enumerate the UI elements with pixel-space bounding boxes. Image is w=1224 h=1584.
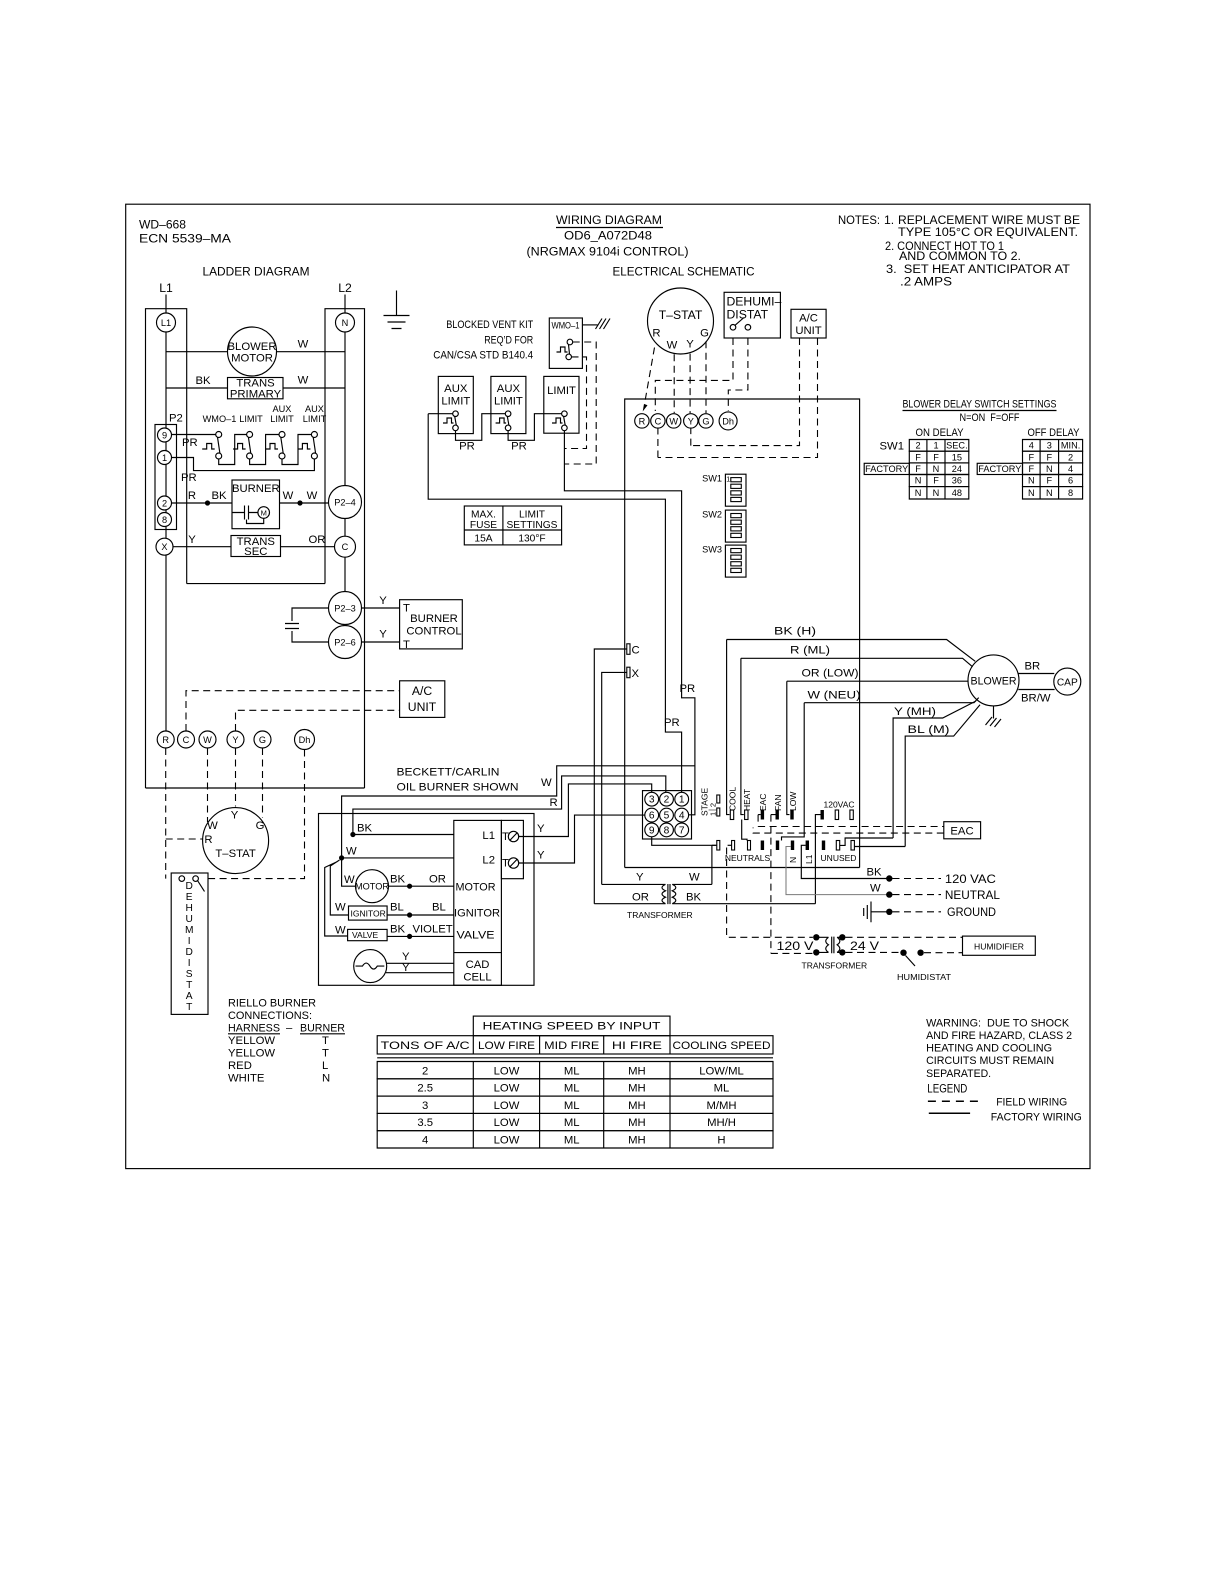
- svg-text:2: 2: [664, 795, 670, 806]
- pin X on board edge: [627, 667, 630, 678]
- wire L2 stem: [344, 295, 346, 314]
- connector circle 8: [158, 513, 172, 527]
- junction dot ignitor row: [407, 912, 412, 917]
- box AUX LIMIT at 491: [491, 376, 526, 433]
- svg-text:120 V: 120 V: [777, 939, 815, 953]
- wire chain jog 3: [282, 435, 311, 465]
- humidifier transformer dots: [813, 934, 819, 940]
- dashed T-STAT W: [673, 354, 675, 413]
- svg-text:AND FIRE HAZARD, CLASS 2: AND FIRE HAZARD, CLASS 2: [926, 1030, 1072, 1042]
- svg-text:A/C: A/C: [799, 313, 818, 325]
- OFF delay table: [1023, 440, 1083, 452]
- svg-text:SW3: SW3: [702, 545, 722, 555]
- junction dot NEUTRAL: [886, 891, 892, 897]
- svg-text:AND COMMON TO 2.: AND COMMON TO 2.: [899, 249, 1021, 263]
- wire BK to 120 VAC: [815, 878, 889, 880]
- svg-text:1: 1: [162, 453, 167, 463]
- svg-text:MH: MH: [628, 1100, 646, 1112]
- NEUTRALS pip a: [732, 841, 735, 851]
- N terminal pip: [791, 841, 794, 851]
- terminal G circle (ladder): [254, 731, 271, 748]
- svg-text:W: W: [346, 846, 357, 858]
- switch 1 in ladder chain: [202, 444, 215, 450]
- dashed wire G to T-STAT: [262, 748, 264, 818]
- svg-text:FACTORY WIRING: FACTORY WIRING: [991, 1111, 1082, 1123]
- svg-text:PR: PR: [459, 441, 475, 453]
- terminal W circle (ladder): [199, 731, 216, 748]
- svg-text:R: R: [188, 490, 196, 502]
- svg-text:BK: BK: [390, 924, 406, 936]
- pin 1: [675, 792, 689, 806]
- svg-text:HEATING SPEED BY INPUT: HEATING SPEED BY INPUT: [483, 1021, 661, 1033]
- svg-text:MH: MH: [628, 1135, 646, 1147]
- svg-text:P2: P2: [169, 413, 183, 425]
- svg-text:RED: RED: [228, 1060, 252, 1072]
- dashed wire R down: [165, 748, 167, 879]
- svg-text:N: N: [342, 318, 349, 328]
- svg-text:4: 4: [1029, 441, 1034, 451]
- svg-text:W: W: [207, 820, 218, 832]
- svg-text:YELLOW: YELLOW: [228, 1048, 275, 1060]
- svg-text:P2–6: P2–6: [334, 638, 355, 648]
- svg-text:W: W: [669, 416, 678, 426]
- junction dot motor row: [407, 884, 412, 889]
- svg-text:OIL BURNER SHOWN: OIL BURNER SHOWN: [397, 782, 519, 794]
- dashed T-STAT Y: [689, 354, 691, 413]
- svg-text:MIN.: MIN.: [1061, 441, 1080, 451]
- svg-text:BK: BK: [686, 892, 702, 904]
- terminal W circle (board): [667, 414, 681, 428]
- svg-text:W: W: [541, 777, 552, 789]
- cap circle: [1054, 668, 1081, 695]
- cad cell circle: [354, 950, 387, 983]
- ON delay table: [909, 440, 969, 452]
- svg-text:OR (LOW): OR (LOW): [802, 668, 859, 680]
- svg-text:LOW: LOW: [494, 1100, 520, 1112]
- svg-text:3: 3: [422, 1100, 428, 1112]
- svg-text:PRIMARY: PRIMARY: [230, 389, 282, 401]
- burner primary control box: [454, 820, 502, 985]
- dashed FAN to transformer bottom: [771, 952, 813, 954]
- FACTORY box ON: [864, 463, 909, 474]
- svg-text:130°F: 130°F: [518, 534, 545, 545]
- pin C on board edge: [627, 644, 630, 655]
- T-STAT circle (schematic): [648, 288, 714, 354]
- dashed AC unit to Y: [691, 338, 800, 446]
- wire Y L2 screw to pin 6: [519, 815, 645, 863]
- svg-text:Y (MH): Y (MH): [894, 706, 936, 718]
- svg-text:.2 AMPS: .2 AMPS: [900, 274, 952, 288]
- svg-text:CELL: CELL: [463, 972, 491, 984]
- svg-text:WD–668: WD–668: [139, 218, 186, 232]
- svg-text:AUX: AUX: [497, 383, 521, 395]
- svg-text:48: 48: [952, 488, 962, 498]
- svg-text:M: M: [185, 925, 194, 936]
- svg-text:15A: 15A: [474, 534, 492, 545]
- svg-text:OR: OR: [632, 892, 649, 904]
- terminal Y circle (ladder): [227, 731, 244, 748]
- wire P2-3 to burner control: [362, 607, 400, 609]
- pin 9: [645, 823, 659, 837]
- svg-text:NOTES:: NOTES:: [838, 213, 880, 227]
- svg-text:LIMIT: LIMIT: [303, 414, 327, 424]
- dehumidistat switch: [179, 876, 185, 882]
- switch in LIMIT box: [552, 418, 563, 423]
- svg-text:YELLOW: YELLOW: [228, 1035, 275, 1047]
- connector circle 9: [158, 428, 172, 442]
- wire N to neutral (gray): [786, 847, 889, 895]
- svg-text:N: N: [1028, 488, 1035, 498]
- pin 8: [660, 823, 674, 837]
- svg-text:C: C: [655, 416, 662, 426]
- svg-text:ML: ML: [564, 1135, 580, 1147]
- trans sec box: [231, 536, 281, 557]
- L1 terminal pip: [806, 841, 809, 851]
- svg-text:BK: BK: [357, 823, 373, 835]
- ignitor box (burner): [349, 906, 388, 920]
- svg-text:WARNING: DUE TO SHOCK: WARNING: DUE TO SHOCK: [926, 1018, 1069, 1030]
- svg-text:W: W: [335, 925, 346, 937]
- svg-text:UNIT: UNIT: [408, 700, 437, 714]
- circle P2-4: [329, 486, 362, 519]
- svg-text:OFF DELAY: OFF DELAY: [1028, 427, 1080, 439]
- svg-text:CAN/CSA STD B140.4: CAN/CSA STD B140.4: [433, 350, 533, 362]
- svg-text:TRANSFORMER: TRANSFORMER: [802, 961, 868, 971]
- svg-text:BECKETT/CARLIN: BECKETT/CARLIN: [397, 767, 500, 779]
- svg-text:NEUTRALS: NEUTRALS: [725, 853, 771, 863]
- junction dot burner row right: [297, 500, 302, 505]
- WMO-1 ground wire: [582, 324, 597, 326]
- svg-text:9: 9: [649, 825, 655, 836]
- wire R (ML): [741, 658, 973, 667]
- svg-text:AUX: AUX: [305, 404, 324, 414]
- dashed WMO-1 top contact: [564, 342, 596, 464]
- EAC box: [944, 822, 981, 839]
- svg-text:I: I: [188, 958, 191, 969]
- svg-text:Y: Y: [537, 850, 545, 862]
- oil burner outer box: [319, 814, 535, 986]
- svg-text:FIELD WIRING: FIELD WIRING: [996, 1096, 1067, 1108]
- dashed wire Dh to dehumidistat: [206, 750, 305, 879]
- terminal X circle: [156, 538, 173, 555]
- terminal C circle: [335, 536, 356, 557]
- dashed wire W to T-STAT: [207, 748, 209, 822]
- ladder box bottom: [146, 787, 365, 789]
- svg-text:R: R: [550, 797, 558, 809]
- svg-text:W: W: [307, 490, 318, 502]
- svg-text:W: W: [298, 375, 309, 387]
- pin 4: [675, 808, 689, 822]
- svg-text:ON DELAY: ON DELAY: [916, 427, 964, 439]
- wire ignitor to board: [387, 914, 454, 916]
- humidifier transformer coils: [816, 937, 842, 954]
- svg-text:4: 4: [422, 1135, 428, 1147]
- heating speed table: [377, 1036, 773, 1054]
- svg-text:HI FIRE: HI FIRE: [612, 1040, 663, 1052]
- wire trans primary row: [166, 387, 345, 389]
- svg-text:LIMIT: LIMIT: [494, 396, 523, 408]
- svg-text:GROUND: GROUND: [947, 905, 996, 919]
- svg-text:WMO–1: WMO–1: [552, 321, 580, 331]
- connector P2 box: [155, 425, 177, 530]
- terminal N circle: [336, 313, 355, 332]
- STAGE pips: [717, 795, 720, 803]
- svg-text:T: T: [403, 639, 410, 651]
- terminal C circle (board): [651, 414, 665, 428]
- humidistat arm: [906, 956, 916, 967]
- svg-text:EAC: EAC: [758, 794, 768, 811]
- ground symbol WMO-1: [596, 319, 611, 330]
- svg-text:9: 9: [162, 430, 167, 440]
- wire BK to L1 row: [353, 834, 454, 836]
- control board outline: [625, 399, 860, 868]
- svg-text:BL (M): BL (M): [908, 724, 950, 736]
- svg-text:BURNER: BURNER: [300, 1023, 345, 1035]
- svg-text:2: 2: [916, 441, 921, 451]
- svg-text:F: F: [933, 476, 939, 486]
- dashed wire Y to AC unit: [236, 710, 400, 731]
- svg-text:HUMIDIFIER: HUMIDIFIER: [974, 941, 1024, 951]
- svg-text:MH: MH: [628, 1065, 646, 1077]
- svg-text:Dh: Dh: [299, 735, 311, 745]
- box AUX LIMIT at 438: [438, 376, 473, 433]
- svg-text:Y: Y: [686, 339, 694, 351]
- svg-text:W: W: [870, 883, 881, 895]
- svg-text:LOW/ML: LOW/ML: [699, 1065, 744, 1077]
- dashed wire R to T-STAT: [166, 838, 204, 840]
- svg-text:LIMIT: LIMIT: [547, 385, 576, 397]
- svg-text:N: N: [915, 476, 922, 486]
- svg-text:T: T: [322, 1048, 329, 1060]
- wire Y (MH): [893, 701, 976, 838]
- switch in box 491: [496, 418, 507, 423]
- svg-text:R: R: [652, 328, 660, 340]
- junction dot GROUND: [886, 909, 892, 915]
- dehumidistat switch (schematic): [730, 325, 736, 331]
- wire W to L2 row: [342, 857, 454, 859]
- legend solid sample: [929, 1112, 970, 1114]
- svg-text:L1: L1: [159, 281, 173, 295]
- svg-text:TONS OF A/C: TONS OF A/C: [381, 1040, 470, 1052]
- svg-text:UNUSED: UNUSED: [821, 853, 857, 863]
- wire chain aux2 to limit: [508, 414, 561, 441]
- svg-text:R: R: [639, 416, 646, 426]
- dashed neutral field to transformer: [727, 848, 813, 938]
- valve box (burner): [348, 929, 388, 940]
- svg-text:W: W: [667, 340, 678, 352]
- svg-text:F: F: [933, 452, 939, 462]
- svg-text:BURNER: BURNER: [410, 613, 458, 625]
- svg-text:X: X: [161, 542, 167, 552]
- wire transformer Y side: [602, 883, 666, 885]
- capacitor in burner box: [232, 506, 258, 520]
- svg-text:MH: MH: [628, 1117, 646, 1129]
- dashed T-STAT R diagonal with arrow: [645, 348, 655, 405]
- W NEU terminal pip: [776, 841, 779, 851]
- wire P2-6 to burner control: [362, 641, 400, 643]
- svg-text:OR: OR: [429, 874, 446, 886]
- NEUTRALS pip b with HEAT link: [748, 841, 751, 851]
- svg-text:120VAC: 120VAC: [823, 800, 854, 810]
- connector circle 2: [158, 496, 172, 510]
- svg-text:4: 4: [679, 811, 685, 822]
- box LIMIT: [544, 376, 579, 433]
- dashed dehumidistat to Dh: [728, 338, 748, 411]
- svg-text:T: T: [403, 603, 410, 615]
- UNUSED pip 3 (BL M): [851, 841, 854, 851]
- svg-text:15: 15: [952, 452, 962, 462]
- wire blower to cap BR: [1018, 673, 1054, 675]
- svg-text:L: L: [322, 1060, 328, 1072]
- wire burner row: [172, 502, 329, 504]
- svg-text:P2–3: P2–3: [334, 604, 355, 614]
- svg-text:A: A: [186, 991, 193, 1002]
- svg-text:T–STAT: T–STAT: [659, 308, 703, 322]
- svg-text:SEC.: SEC.: [946, 441, 967, 451]
- svg-text:MID FIRE: MID FIRE: [544, 1040, 599, 1052]
- svg-text:8: 8: [664, 825, 670, 836]
- svg-text:SETTINGS: SETTINGS: [507, 520, 558, 531]
- svg-text:MH/H: MH/H: [707, 1117, 736, 1129]
- wire motor to board MOTOR: [389, 885, 454, 887]
- svg-text:24: 24: [952, 464, 962, 474]
- wire chain jog 2: [250, 435, 279, 465]
- junction dot burner row left: [205, 500, 210, 505]
- svg-text:Y: Y: [188, 534, 196, 546]
- svg-text:N: N: [322, 1073, 330, 1085]
- svg-text:D: D: [186, 881, 193, 892]
- svg-text:HARNESS: HARNESS: [228, 1023, 280, 1035]
- wire chain aux1 to aux2: [456, 414, 506, 441]
- svg-text:6: 6: [1068, 476, 1073, 486]
- UNUSED pip 2 (Y MH): [836, 841, 839, 851]
- dashed 24V bottom to humidistat: [846, 951, 900, 953]
- svg-text:R: R: [204, 834, 212, 846]
- svg-text:SW1: SW1: [880, 441, 904, 453]
- pin 2: [660, 792, 674, 806]
- svg-text:OD6_A072D48: OD6_A072D48: [564, 229, 652, 243]
- dehumidistat box (ladder): [171, 873, 208, 1014]
- svg-text:W: W: [344, 874, 355, 886]
- svg-text:24 V: 24 V: [850, 939, 880, 953]
- dashed wire C to AC unit: [186, 691, 400, 731]
- svg-text:Dh: Dh: [722, 416, 734, 426]
- dashed 24V top to humidifier: [846, 936, 963, 938]
- dashed wire Y to T-STAT (ladder): [235, 748, 237, 807]
- svg-text:G: G: [259, 735, 266, 745]
- switch 3 in ladder chain: [266, 444, 279, 450]
- 120VAC pip 3: [850, 810, 853, 820]
- svg-text:W: W: [298, 339, 309, 351]
- svg-text:COOLING SPEED: COOLING SPEED: [673, 1040, 771, 1052]
- svg-text:LIMIT: LIMIT: [519, 510, 545, 521]
- svg-text:ELECTRICAL SCHEMATIC: ELECTRICAL SCHEMATIC: [613, 265, 755, 279]
- svg-text:CONTROL: CONTROL: [406, 626, 461, 638]
- svg-text:N: N: [915, 488, 922, 498]
- svg-text:WHITE: WHITE: [228, 1073, 265, 1085]
- svg-text:7: 7: [679, 825, 685, 836]
- svg-text:T: T: [186, 980, 192, 991]
- svg-text:BK: BK: [867, 867, 883, 879]
- wire M loop: [247, 518, 264, 523]
- svg-text:REQ’D FOR: REQ’D FOR: [484, 335, 533, 347]
- motor M circle in burner box: [258, 507, 270, 519]
- svg-text:36: 36: [952, 476, 962, 486]
- burner control box: [400, 600, 463, 649]
- WMO-1 box: [549, 318, 582, 368]
- WMO-1 switch: [557, 347, 568, 352]
- wire W: burner to pin4 join: [342, 766, 695, 858]
- wire pin 9 to neutral terminal: [652, 837, 716, 846]
- switch 4 in ladder chain: [298, 444, 311, 450]
- dashed to 120 VAC: [893, 878, 942, 880]
- wire L1 to hot bus: [801, 845, 815, 878]
- svg-text:F: F: [915, 464, 921, 474]
- svg-text:U: U: [186, 914, 193, 925]
- switch 2 in ladder chain: [233, 444, 246, 450]
- svg-text:HEATING AND COOLING: HEATING AND COOLING: [926, 1043, 1052, 1055]
- svg-text:5: 5: [664, 811, 670, 822]
- svg-text:F: F: [1028, 464, 1034, 474]
- humidistat dots: [900, 950, 906, 956]
- ladder right rail box: [325, 309, 365, 788]
- svg-text:120 VAC: 120 VAC: [945, 872, 996, 886]
- blower ground stem: [993, 706, 995, 719]
- svg-text:M: M: [261, 509, 267, 518]
- svg-text:IGNITOR: IGNITOR: [351, 909, 386, 919]
- svg-text:BLOWER DELAY SWITCH SETTINGS: BLOWER DELAY SWITCH SETTINGS: [903, 399, 1057, 411]
- svg-text:D: D: [186, 947, 193, 958]
- ladder inner bottom: [187, 583, 325, 585]
- junction dot valve row: [407, 934, 412, 939]
- svg-text:Y: Y: [636, 872, 644, 884]
- svg-text:3.5: 3.5: [417, 1117, 433, 1129]
- dashed dehumidistat to C: [655, 338, 733, 411]
- wire transformer W side to neutral terminal: [672, 883, 712, 885]
- AC unit box (ladder): [400, 681, 445, 718]
- svg-text:WMO–1: WMO–1: [203, 414, 237, 424]
- svg-text:R (ML): R (ML): [790, 645, 830, 657]
- dashed EAC lower / transformer feed: [753, 828, 944, 834]
- svg-text:LIMIT: LIMIT: [239, 414, 263, 424]
- svg-text:(NRGMAX 9104i CONTROL): (NRGMAX 9104i CONTROL): [527, 245, 689, 259]
- 120VAC pip 2: [835, 810, 838, 820]
- svg-text:T: T: [186, 1002, 192, 1013]
- wire L1 rail: [165, 313, 167, 731]
- svg-text:BR/W: BR/W: [1021, 693, 1051, 705]
- wire N rail: [344, 313, 346, 658]
- svg-text:1.: 1.: [884, 213, 894, 227]
- terminal R circle (board): [635, 414, 649, 428]
- svg-text:2: 2: [1068, 452, 1073, 462]
- svg-text:VIOLET: VIOLET: [413, 924, 453, 936]
- svg-text:Y: Y: [688, 416, 694, 426]
- svg-text:COOL: COOL: [727, 787, 737, 811]
- svg-text:MOTOR: MOTOR: [456, 882, 496, 894]
- ladder left rail box: [146, 309, 187, 788]
- svg-text:BL: BL: [432, 902, 446, 914]
- svg-text:2: 2: [162, 498, 167, 508]
- pin 6: [645, 808, 659, 822]
- wire blower motor row: [166, 351, 345, 353]
- svg-text:CIRCUITS MUST REMAIN: CIRCUITS MUST REMAIN: [926, 1055, 1054, 1067]
- svg-text:UNIT: UNIT: [795, 325, 821, 337]
- svg-text:LOW: LOW: [494, 1065, 520, 1077]
- switch in box 438: [443, 418, 454, 423]
- svg-text:Y: Y: [537, 823, 545, 835]
- svg-text:4: 4: [1068, 464, 1073, 474]
- svg-text:FACTORY: FACTORY: [865, 464, 908, 474]
